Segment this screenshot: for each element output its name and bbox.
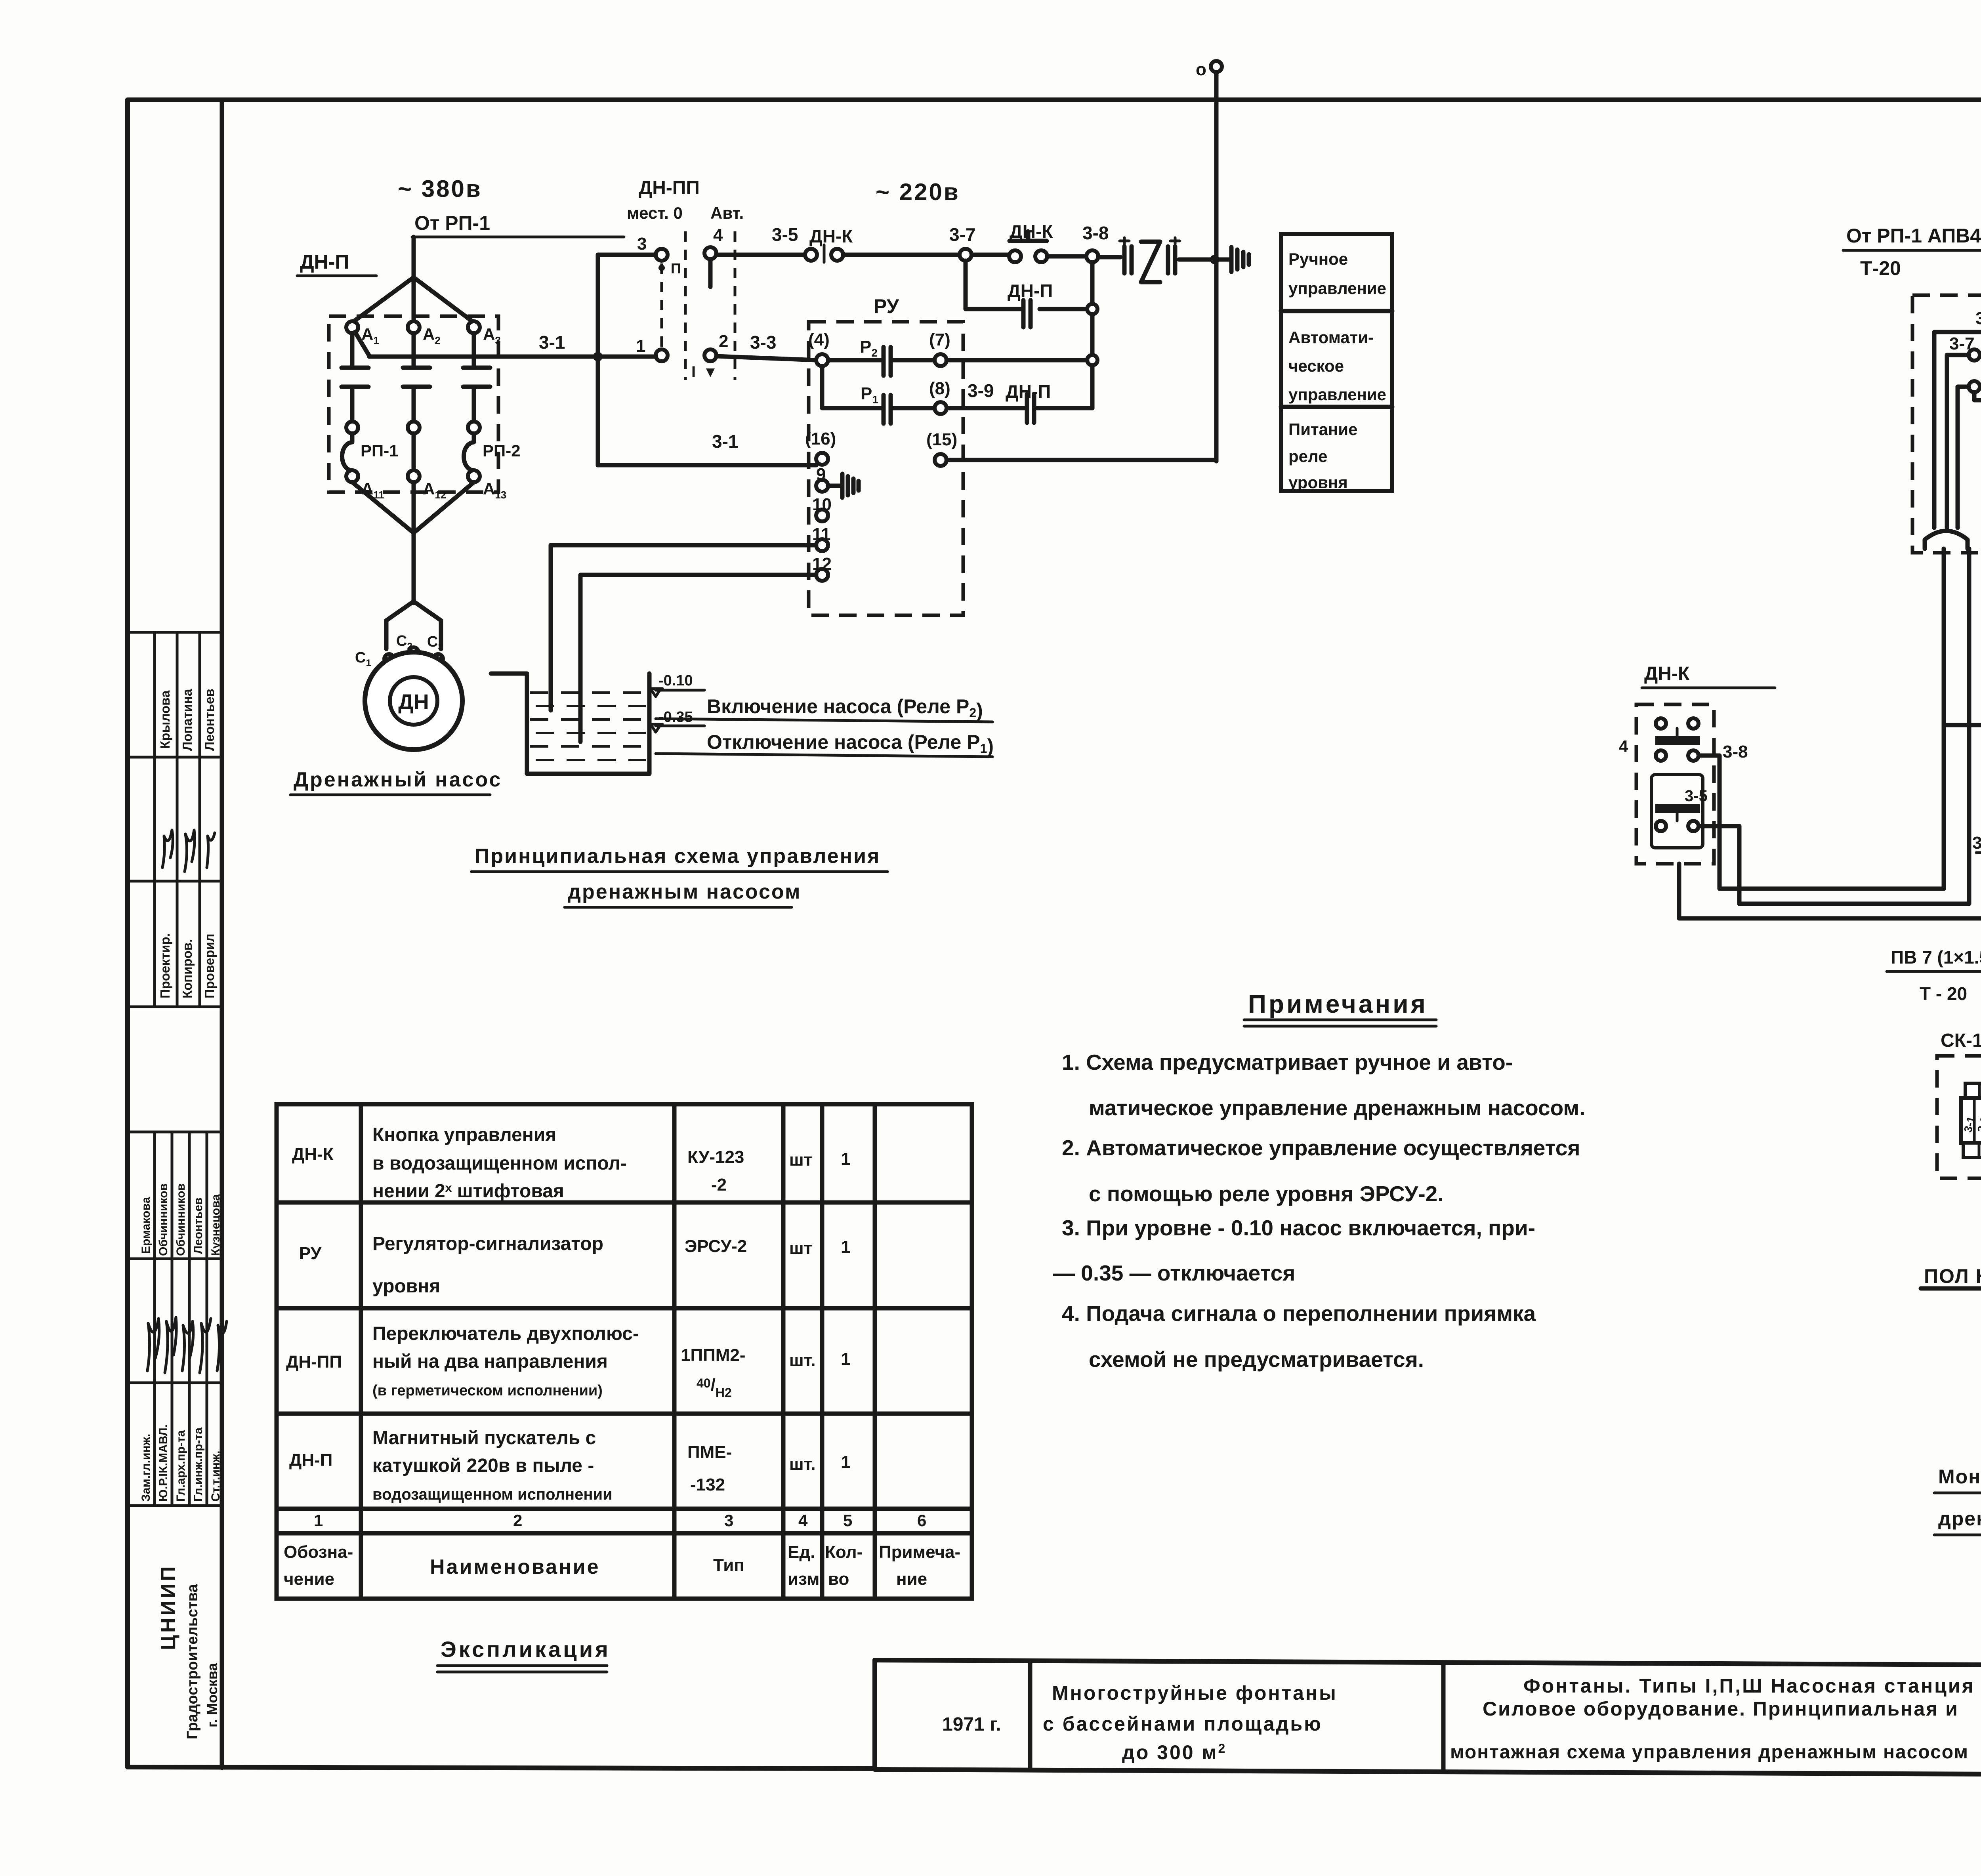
svg-text:ДН-П: ДН-П bbox=[289, 1450, 332, 1470]
node From RP-1 feeder label bbox=[412, 212, 624, 237]
svg-text:3-8: 3-8 bbox=[1082, 223, 1109, 243]
wire control bus 220v bbox=[716, 255, 1120, 257]
svg-text:Ручное: Ручное bbox=[1288, 250, 1348, 268]
svg-text:От РП-1: От РП-1 bbox=[414, 212, 490, 234]
svg-text:дренажным насосом: дренажным насосом bbox=[1938, 1508, 1981, 1530]
node A11 bbox=[346, 470, 384, 501]
switch DN-PP pole I contact 3 bbox=[637, 234, 668, 261]
switch DN-PP position dashes bbox=[662, 231, 735, 380]
svg-text:9: 9 bbox=[816, 465, 826, 484]
pushbutton station DN-K dashed box bbox=[1636, 704, 1714, 864]
svg-text:Питание: Питание bbox=[1288, 420, 1357, 439]
svg-text:Монтажная схема управления: Монтажная схема управления bbox=[1938, 1466, 1981, 1488]
svg-text:ДН-К: ДН-К bbox=[1644, 663, 1690, 684]
terminal box SK-12 dashed enclosure bbox=[1937, 1056, 1981, 1178]
svg-text:КУ-123: КУ-123 bbox=[687, 1147, 744, 1167]
svg-text:1: 1 bbox=[314, 1511, 323, 1530]
svg-text:до 300 м2: до 300 м2 bbox=[1122, 1741, 1227, 1763]
svg-text:уровня: уровня bbox=[372, 1276, 440, 1297]
node zero bus junction bbox=[1210, 255, 1220, 264]
wire zero bus bbox=[1214, 72, 1219, 461]
node A2 bbox=[408, 321, 441, 346]
svg-text:ДН-П: ДН-П bbox=[1006, 381, 1051, 402]
svg-text:Градостроительства: Градостроительства bbox=[184, 1584, 201, 1739]
svg-text:РУ: РУ bbox=[299, 1244, 322, 1263]
svg-text:Экспликация: Экспликация bbox=[441, 1637, 611, 1662]
svg-text:ДН-ПП: ДН-ПП bbox=[639, 177, 700, 198]
node 3-8 bbox=[1082, 223, 1109, 262]
svg-text:ПВ 7 (1×1.5): ПВ 7 (1×1.5) bbox=[1891, 947, 1981, 968]
left stamp signatures (lower) bbox=[147, 1317, 227, 1373]
legend table manual auto level bbox=[1281, 234, 1392, 492]
motor cable gland bbox=[386, 601, 441, 649]
table column numbers row bbox=[314, 1511, 926, 1530]
svg-text:во: во bbox=[828, 1569, 849, 1589]
starter DN-P dashed enclosure bbox=[1912, 295, 1981, 553]
label positions mest 0 avt bbox=[627, 204, 744, 222]
node seal junction bbox=[1087, 304, 1097, 314]
wire three-phase fan-out bbox=[352, 277, 474, 323]
svg-text:-2: -2 bbox=[711, 1175, 727, 1195]
title principal schematic bbox=[471, 845, 887, 907]
svg-text:о: о bbox=[1196, 60, 1206, 79]
contactor DN-P main contact pole 2 bbox=[403, 333, 430, 422]
node C2 bbox=[396, 633, 418, 657]
wire coil to zero bus bbox=[1179, 258, 1212, 262]
note 2 bbox=[1062, 1136, 1580, 1206]
svg-text:водозащищенном исполнении: водозащищенном исполнении bbox=[372, 1486, 613, 1503]
svg-text:шт.: шт. bbox=[789, 1454, 816, 1474]
sump tank principal bbox=[491, 674, 649, 774]
svg-text:(4): (4) bbox=[808, 330, 830, 349]
svg-text:Ермакова: Ермакова bbox=[139, 1197, 153, 1254]
svg-text:Кнопка управления: Кнопка управления bbox=[372, 1124, 556, 1145]
svg-text:-0.10: -0.10 bbox=[658, 672, 693, 689]
svg-text:Т - 20: Т - 20 bbox=[1920, 983, 1967, 1004]
table header row bbox=[284, 1542, 960, 1589]
note 3 bbox=[1053, 1216, 1535, 1285]
svg-text:Леонтьев: Леонтьев bbox=[202, 689, 217, 751]
svg-text:шт: шт bbox=[789, 1239, 812, 1258]
svg-text:ДН: ДН bbox=[398, 690, 429, 714]
node terminal (16) bbox=[805, 429, 836, 465]
svg-text:3-7: 3-7 bbox=[949, 224, 975, 245]
svg-text:Проверил: Проверил bbox=[202, 933, 217, 998]
switch DN-PP pole avt contact 4 bbox=[704, 225, 723, 259]
left stamp strip rotated names (upper group) bbox=[158, 689, 217, 998]
svg-text:РП-1: РП-1 bbox=[361, 441, 399, 460]
svg-text:Проектир.: Проектир. bbox=[158, 933, 172, 998]
contact DN-P auxiliary bbox=[1008, 281, 1053, 327]
svg-text:ПМЕ-: ПМЕ- bbox=[687, 1443, 732, 1462]
svg-text:Крылова: Крылова bbox=[158, 690, 172, 749]
node 3-7 terminal bbox=[1949, 334, 1980, 361]
left stamp signatures (upper) bbox=[162, 830, 215, 872]
svg-text:П: П bbox=[671, 260, 681, 277]
left stamp strip dividers bbox=[128, 632, 222, 1506]
svg-text:3-3: 3-3 bbox=[750, 332, 776, 353]
svg-text:Тип: Тип bbox=[713, 1555, 744, 1575]
svg-text:ДН-К: ДН-К bbox=[809, 226, 853, 246]
svg-text:Кол-: Кол- bbox=[825, 1542, 863, 1562]
label PV7 cable bbox=[1887, 947, 1981, 1004]
svg-text:4: 4 bbox=[713, 225, 723, 245]
svg-text:1. Схема предусматривает ручно: 1. Схема предусматривает ручное и авто- bbox=[1062, 1050, 1513, 1074]
wire converge to motor bbox=[352, 482, 474, 603]
wire DN-P seal-in branch bbox=[966, 261, 1092, 408]
node C3 bbox=[427, 634, 443, 664]
svg-text:Лопатина: Лопатина bbox=[180, 689, 195, 751]
svg-text:мест. 0: мест. 0 bbox=[627, 204, 683, 222]
svg-text:реле: реле bbox=[1288, 447, 1328, 466]
svg-text:Принципиальная схема управлени: Принципиальная схема управления bbox=[475, 845, 880, 868]
pushbutton DN-K stop bbox=[1009, 221, 1053, 262]
svg-text:12: 12 bbox=[812, 554, 832, 574]
contact P1 level relay bbox=[861, 384, 891, 424]
node terminal 11 bbox=[812, 525, 831, 551]
label 3-8 leader mounting bbox=[1972, 833, 1981, 896]
wire pole2 through bbox=[412, 433, 416, 470]
svg-text:ДН-К: ДН-К bbox=[1010, 221, 1053, 242]
svg-text:(8): (8) bbox=[929, 379, 950, 398]
svg-text:~ 220в: ~ 220в bbox=[876, 179, 960, 205]
svg-text:1: 1 bbox=[841, 1237, 850, 1257]
svg-text:ный на два направления: ный на два направления bbox=[372, 1351, 608, 1372]
svg-text:6: 6 bbox=[917, 1511, 926, 1530]
svg-text:монтажная схема управления: монтажная схема управления дренажным нас… bbox=[1450, 1742, 1969, 1763]
node terminal 9 with ground bbox=[816, 465, 859, 498]
svg-text:-0.35: -0.35 bbox=[658, 709, 693, 725]
svg-text:Ст.т.инж.: Ст.т.инж. bbox=[209, 1450, 222, 1502]
svg-text:Силовое оборудование. Принци: Силовое оборудование. Принципиальная и bbox=[1483, 1698, 1959, 1720]
node junction 3-1 bbox=[593, 352, 603, 361]
svg-text:(15): (15) bbox=[926, 430, 957, 449]
svg-text:3-5: 3-5 bbox=[1685, 787, 1708, 805]
svg-text:-132: -132 bbox=[690, 1475, 725, 1494]
title block project name bbox=[1043, 1682, 1338, 1763]
svg-text:Обчинников: Обчинников bbox=[157, 1183, 170, 1256]
svg-text:4: 4 bbox=[1619, 737, 1628, 756]
svg-text:(7): (7) bbox=[929, 330, 950, 349]
node avt arrow bbox=[706, 368, 715, 377]
svg-text:Авт.: Авт. bbox=[710, 204, 744, 222]
contactor DN-P label bbox=[297, 251, 376, 276]
svg-text:1: 1 bbox=[636, 336, 645, 356]
svg-text:шт.: шт. bbox=[789, 1351, 816, 1370]
svg-text:3-7: 3-7 bbox=[1949, 334, 1975, 353]
svg-text:уровня: уровня bbox=[1288, 473, 1348, 492]
label drain pump bbox=[290, 768, 502, 795]
svg-text:шт: шт bbox=[789, 1150, 812, 1170]
svg-text:3-1: 3-1 bbox=[712, 431, 738, 452]
svg-text:ЦНИИП: ЦНИИП bbox=[157, 1564, 180, 1650]
node 3-1 terminal bbox=[1975, 309, 1981, 338]
svg-text:Примечания: Примечания bbox=[1248, 990, 1428, 1018]
node terminal 12 bbox=[812, 554, 832, 581]
wire P1 row bbox=[822, 366, 1092, 408]
contactor DN-P main contact pole 3 bbox=[463, 333, 490, 422]
node P2 row junction bbox=[1087, 355, 1097, 365]
svg-text:I: I bbox=[691, 363, 696, 381]
node terminal (8) bbox=[929, 379, 950, 414]
svg-text:Многоструйные фонтаны: Многоструйные фонтаны bbox=[1052, 1682, 1338, 1704]
svg-text:ДН-ПП: ДН-ПП bbox=[286, 1352, 342, 1372]
svg-text:Примеча-: Примеча- bbox=[879, 1542, 960, 1562]
thermal relay RP-2 bbox=[464, 433, 521, 471]
svg-text:Регулятор-сигнализатор: Регулятор-сигнализатор bbox=[372, 1233, 603, 1254]
node pole I tick bbox=[658, 265, 665, 271]
svg-text:3-1: 3-1 bbox=[1975, 309, 1981, 328]
wire electrode 12 bbox=[580, 575, 816, 742]
contact DN-P auxiliary 3-9 bbox=[968, 380, 1051, 423]
floor line machine hall bbox=[1921, 1265, 1981, 1288]
svg-text:Фонтаны. Типы I,П,Ш Насосная: Фонтаны. Типы I,П,Ш Насосная станция bbox=[1523, 1675, 1975, 1697]
level mark -0.10 pump on bbox=[649, 672, 992, 722]
svg-text:катушкой 220в в пыле -: катушкой 220в в пыле - bbox=[372, 1455, 594, 1476]
svg-text:3: 3 bbox=[637, 234, 647, 254]
svg-text:Переключатель двухполюс-: Переключатель двухполюс- bbox=[372, 1323, 639, 1344]
svg-text:(16): (16) bbox=[805, 429, 836, 448]
left stamp rotated names (lower group) bbox=[139, 1183, 222, 1502]
wire 3-8 inner link bbox=[1974, 378, 1981, 400]
svg-text:4: 4 bbox=[798, 1511, 808, 1530]
node terminal (7) bbox=[929, 330, 950, 366]
svg-text:Обчинников: Обчинников bbox=[174, 1183, 187, 1256]
title block sheet name bbox=[1450, 1675, 1975, 1763]
specification table frame bbox=[277, 1104, 972, 1599]
svg-text:3-1: 3-1 bbox=[539, 332, 565, 353]
starter left exit gland bbox=[1925, 531, 1968, 549]
svg-text:От РП-1 АПВ4(1×2.5): От РП-1 АПВ4(1×2.5) bbox=[1846, 225, 1981, 247]
wire 3-1 riser left bbox=[1934, 332, 1981, 528]
node terminal 10 bbox=[812, 495, 832, 521]
svg-text:ДН-К: ДН-К bbox=[292, 1145, 334, 1164]
svg-text:Кузнецова: Кузнецова bbox=[209, 1194, 222, 1256]
svg-text:РУ: РУ bbox=[874, 295, 899, 317]
svg-text:схемой не предусматривается.: схемой не предусматривается. bbox=[1089, 1347, 1424, 1372]
svg-text:Гл.инж.пр-та: Гл.инж.пр-та bbox=[192, 1428, 205, 1502]
svg-text:Обозна-: Обозна- bbox=[284, 1542, 353, 1562]
node A3 bbox=[468, 321, 501, 346]
svg-text:с бассейнами площадью: с бассейнами площадью bbox=[1043, 1713, 1323, 1735]
left stamp institute block bbox=[157, 1564, 220, 1739]
wire 3-1 to terminal 16 bbox=[598, 431, 816, 465]
svg-text:Леонтьев: Леонтьев bbox=[192, 1198, 205, 1254]
svg-text:ЭРСУ-2: ЭРСУ-2 bbox=[685, 1237, 747, 1256]
label specification bbox=[437, 1637, 611, 1672]
wire electrode 11 bbox=[551, 545, 816, 710]
svg-text:2: 2 bbox=[719, 332, 728, 351]
svg-text:СК-12: СК-12 bbox=[1941, 1030, 1981, 1051]
table row DN-P starter bbox=[289, 1428, 850, 1503]
motor DN drain pump bbox=[365, 652, 462, 750]
wire DN-K to risers bbox=[1699, 756, 1969, 904]
node terminal (4) bbox=[808, 330, 830, 366]
node pole2 mid bbox=[408, 422, 420, 433]
contact P2 level relay bbox=[828, 337, 935, 376]
switch DN-PP pole I contact 1 bbox=[636, 336, 668, 361]
node terminal (15) bbox=[926, 430, 957, 466]
svg-text:Гл.арх.пр-та: Гл.арх.пр-та bbox=[174, 1430, 187, 1502]
svg-text:1: 1 bbox=[841, 1149, 850, 1169]
title block frame bbox=[875, 1660, 1981, 1776]
svg-text:10: 10 bbox=[812, 495, 832, 514]
wire feeder drop bbox=[412, 237, 416, 277]
svg-text:ДН-П: ДН-П bbox=[1008, 281, 1053, 301]
wire DN-PP feed left bbox=[1944, 723, 1981, 727]
svg-text:нении 2х штифтовая: нении 2х штифтовая bbox=[372, 1181, 564, 1202]
svg-text:~ 380в: ~ 380в bbox=[398, 176, 482, 202]
node A13 bbox=[468, 470, 506, 501]
svg-text:ПОЛ НАШЗАЛЛ: ПОЛ НАШЗАЛЛ bbox=[1924, 1265, 1981, 1287]
svg-text:3-8: 3-8 bbox=[1972, 833, 1981, 853]
svg-text:3. При уровне - 0.10 насос вкл: 3. При уровне - 0.10 насос включается, п… bbox=[1062, 1216, 1535, 1240]
terminal strip SK-12 bbox=[1961, 1083, 1981, 1174]
svg-text:Ю.Р.IК.МАВЛ.: Ю.Р.IК.МАВЛ. bbox=[157, 1424, 170, 1502]
svg-text:в водозащищенном испол-: в водозащищенном испол- bbox=[372, 1153, 627, 1174]
svg-text:ческое: ческое bbox=[1288, 357, 1344, 375]
svg-text:3-8: 3-8 bbox=[1723, 742, 1748, 761]
svg-text:11: 11 bbox=[812, 525, 831, 544]
svg-text:матическое управление дренажны: матическое управление дренажным насосом. bbox=[1089, 1095, 1585, 1120]
svg-text:Магнитный пускатель с: Магнитный пускатель с bbox=[372, 1428, 596, 1449]
svg-text:Копиров.: Копиров. bbox=[180, 939, 195, 998]
contactor DN-P dashed enclosure bbox=[329, 316, 498, 492]
svg-text:3-9: 3-9 bbox=[968, 380, 994, 401]
svg-text:Дренажный насос: Дренажный насос bbox=[294, 768, 502, 791]
wire 3-1 from pole A1 bbox=[355, 332, 598, 357]
svg-text:управление: управление bbox=[1288, 279, 1386, 298]
svg-text:ДН-П: ДН-П bbox=[300, 251, 349, 273]
title mounting schematic bbox=[1934, 1466, 1981, 1535]
svg-text:4. Подача сигнала о переполнен: 4. Подача сигнала о переполнении приямка bbox=[1062, 1301, 1536, 1326]
svg-text:с помощью реле уровня ЭРСУ-2.: с помощью реле уровня ЭРСУ-2. bbox=[1089, 1181, 1444, 1206]
pushbutton DN-K start 3-5 bbox=[772, 224, 853, 262]
switch DN-PP blade avt bbox=[708, 259, 713, 287]
wire 3-3 row bbox=[716, 332, 816, 360]
table row DN-K pushbutton bbox=[292, 1124, 850, 1202]
svg-text:г. Москва: г. Москва bbox=[204, 1662, 220, 1727]
node C1 bbox=[355, 649, 394, 668]
svg-text:Ед.: Ед. bbox=[788, 1542, 815, 1562]
node pole1 mid bbox=[346, 422, 358, 433]
node 3-8 terminal bbox=[1969, 381, 1981, 402]
svg-text:1: 1 bbox=[841, 1452, 850, 1472]
svg-text:дренажным насосом: дренажным насосом bbox=[568, 880, 801, 903]
svg-text:ние: ние bbox=[896, 1569, 927, 1589]
node A12 bbox=[408, 470, 446, 501]
svg-text:чение: чение bbox=[284, 1569, 334, 1589]
wire DN-K bottom run bbox=[1679, 864, 1981, 918]
wire 3-7 riser bbox=[1947, 355, 1969, 528]
note 4 bbox=[1062, 1301, 1536, 1372]
wire P2 row to bus bbox=[947, 358, 1087, 363]
SK-12 cell labels bbox=[1962, 1115, 1981, 1134]
svg-text:3: 3 bbox=[724, 1511, 733, 1530]
switch DN-PP pole avt contact 2 bbox=[704, 332, 728, 361]
wire left risers below box bbox=[1944, 549, 1969, 904]
contactor DN-P main contact pole 1 bbox=[342, 333, 368, 422]
svg-text:РП-2: РП-2 bbox=[483, 441, 521, 460]
thermal relay RP-1 bbox=[342, 433, 399, 471]
svg-text:3-5: 3-5 bbox=[772, 224, 798, 245]
wire 3-8 riser bbox=[1958, 387, 1969, 528]
svg-text:изм.: изм. bbox=[788, 1569, 824, 1589]
svg-text:1971 г.: 1971 г. bbox=[942, 1714, 1001, 1735]
node A1 bbox=[346, 321, 379, 346]
svg-text:1ППМ2-: 1ППМ2- bbox=[681, 1345, 746, 1365]
svg-text:2: 2 bbox=[513, 1511, 522, 1530]
svg-text:2. Автоматическое управление о: 2. Автоматическое управление осуществляе… bbox=[1062, 1136, 1580, 1160]
svg-text:(в герметическом исполнении): (в герметическом исполнении) bbox=[372, 1382, 603, 1399]
svg-text:управление: управление bbox=[1288, 385, 1386, 404]
svg-text:Т-20: Т-20 bbox=[1860, 257, 1901, 279]
pushbutton station DN-K label bbox=[1642, 663, 1775, 688]
svg-text:Автомати-: Автомати- bbox=[1288, 328, 1374, 347]
table row DN-PP switch bbox=[286, 1323, 850, 1400]
svg-text:— 0.35 — отключается: — 0.35 — отключается bbox=[1053, 1261, 1295, 1285]
level mark -0.35 pump off bbox=[649, 709, 994, 757]
note 1 bbox=[1062, 1050, 1585, 1120]
relay unit RU dashed enclosure bbox=[809, 295, 963, 615]
ground after coil bbox=[1220, 247, 1249, 272]
notes heading bbox=[1244, 990, 1436, 1026]
node 0 supply top bbox=[1196, 60, 1222, 79]
node 3-7 bbox=[949, 224, 975, 261]
svg-text:Наименование: Наименование bbox=[430, 1555, 600, 1578]
wire control risers bbox=[598, 255, 656, 465]
pushbutton DN-K contacts bbox=[1651, 718, 1703, 848]
table row RU level regulator bbox=[299, 1233, 850, 1297]
label feeder from RP-1 bbox=[1843, 225, 1981, 279]
wire terminal 15 to zero bus bbox=[947, 460, 1216, 461]
svg-text:1: 1 bbox=[841, 1349, 850, 1369]
svg-text:5: 5 bbox=[843, 1511, 852, 1530]
node pole3 mid bbox=[468, 422, 480, 433]
svg-text:Зам.гл.инж.: Зам.гл.инж. bbox=[139, 1434, 153, 1502]
coil DN-P contactor coil bbox=[1120, 238, 1180, 282]
